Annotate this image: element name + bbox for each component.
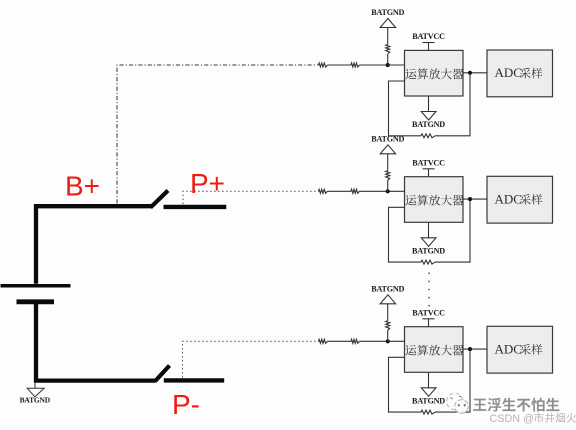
op-amp U2 box — [405, 177, 464, 223]
wire: ch3 bias resistor to ground symbol — [387, 304, 389, 321]
svg-text:CSDN @: CSDN @ — [490, 413, 535, 425]
wire: P+ sense tap (dotted) — [183, 191, 319, 204]
switch blade: positive contactor — [151, 191, 169, 208]
wire: ch2 BATVCC to op-amp — [428, 169, 430, 177]
wire: ch3 feedback bottom/right to output — [435, 351, 470, 412]
label: op-amp U1 text 运算放大器 — [406, 68, 464, 79]
svg-text:BATGND: BATGND — [20, 396, 51, 405]
wire: ch2 feedback bottom/right to output — [435, 201, 470, 262]
svg-text:ADC: ADC — [495, 191, 522, 206]
wire: ch1 input lead to series resistor — [317, 64, 320, 66]
svg-text:BATGND: BATGND — [371, 284, 404, 293]
switch contact: P+ side — [164, 205, 227, 209]
ground: ch2 BATGND symbol (down triangle) — [421, 238, 436, 247]
block: ch3 ADC sampling box — [487, 326, 553, 373]
wire: ch3 feedback left/bottom — [389, 357, 422, 412]
wire: ch2 input to op-amp — [360, 190, 405, 192]
svg-text:BATGND: BATGND — [412, 396, 445, 405]
node: ch1 input junction — [386, 63, 390, 67]
svg-text:BATGND: BATGND — [371, 134, 404, 143]
block: ch2 ADC sampling box — [487, 176, 553, 223]
resistor: ch2 input series R1 — [319, 189, 328, 193]
label: op-amp U3 text 运算放大器 — [406, 345, 464, 356]
wire: continuation (vertical dotted, more channels) — [428, 273, 430, 309]
wire: ch1 BATVCC to op-amp — [428, 43, 430, 51]
svg-text:ADC: ADC — [495, 65, 522, 80]
wire: ch3 input lead to series resistor — [317, 340, 320, 342]
wire: ch2 op-amp output to ADC — [463, 198, 487, 200]
resistor: ch2 bias R to BATGND — [386, 171, 390, 181]
label: op-amp U2 text 运算放大器 — [406, 195, 464, 206]
wire: ch1 feedback bottom/right to output — [435, 75, 470, 136]
switch contact: P- side — [164, 378, 224, 382]
wire: ch2 bias resistor to ground symbol — [387, 154, 389, 171]
node: ch3 input junction — [386, 339, 390, 343]
label: ch3 ADC text 采样 — [520, 344, 542, 355]
resistor: ch3 input series R1 — [319, 339, 328, 343]
wire: ch1 junction to bias resistor — [387, 54, 389, 65]
power: ch1 BATVCC bar — [423, 42, 435, 44]
power: ch2 BATVCC bar — [423, 168, 435, 170]
wire: battery negative to chassis ground — [34, 383, 36, 392]
wire: ch1 op-amp output to ADC — [463, 72, 487, 74]
wire: battery positive to switch (thick, B+ rail) — [36, 206, 152, 284]
wire: B+ sense tap (dash-dot) — [117, 65, 319, 204]
ground: ch3 BATGND symbol (down triangle) — [421, 388, 436, 397]
wire: ch2 input lead to series resistor — [317, 190, 320, 192]
node: ch2 output junction — [468, 197, 472, 201]
node: ch3 output junction — [468, 347, 472, 351]
wire: ch3 junction to bias resistor — [387, 330, 389, 341]
switch blade: negative contactor — [155, 366, 170, 382]
svg-text:ADC: ADC — [495, 341, 522, 356]
watermark icon (mascot circles) — [447, 393, 469, 413]
resistor: ch1 bias R to BATGND — [386, 45, 390, 55]
wire: ch3 between series resistors — [328, 340, 352, 342]
ground: ch1 BATGND symbol (down triangle) — [421, 112, 436, 121]
svg-text:P-: P- — [172, 389, 200, 420]
resistor: ch2 input series R2 — [351, 189, 360, 193]
resistor: ch1 input series R2 — [351, 63, 360, 67]
block: ch1 ADC sampling box — [487, 50, 553, 97]
battery positive plate (long) — [1, 284, 71, 288]
op-amp U3 box — [405, 327, 464, 373]
wire: ch3 op-amp output to ADC — [463, 348, 487, 350]
resistor: ch3 feedback R — [421, 410, 435, 414]
resistor: ch1 feedback R — [421, 134, 435, 138]
label: ch2 ADC text 采样 — [520, 194, 542, 205]
wire: ch2 feedback left/bottom — [389, 207, 422, 262]
wire: battery negative to bottom rail (thick) — [36, 302, 155, 381]
wire: P- sense tap (dotted) — [183, 341, 319, 377]
wire: ch1 op-amp to lower ground — [428, 96, 430, 112]
svg-text:BATGND: BATGND — [371, 8, 404, 17]
watermark text 王浮生不怕生 — [473, 398, 559, 412]
watermark text 市井烟火 — [534, 413, 576, 423]
wire: ch1 feedback left/bottom — [389, 81, 422, 136]
wire: ch2 between series resistors — [328, 190, 352, 192]
svg-text:BATVCC: BATVCC — [412, 32, 445, 41]
node: ch2 input junction — [386, 189, 390, 193]
wire: ch2 op-amp to lower ground — [428, 222, 430, 238]
ground: battery BATGND (down triangle) — [27, 388, 44, 397]
wire: ch1 input to op-amp — [360, 64, 405, 66]
ground: ch3 BATGND symbol (up triangle) — [380, 295, 395, 304]
wire: ch1 bias resistor to ground symbol — [387, 28, 389, 45]
resistor: ch3 input series R2 — [351, 339, 360, 343]
svg-text:BATVCC: BATVCC — [412, 158, 445, 167]
ground: ch2 BATGND symbol (up triangle) — [380, 145, 395, 154]
resistor: ch3 bias R to BATGND — [386, 321, 390, 331]
svg-text:BATVCC: BATVCC — [412, 308, 445, 317]
svg-text:BATGND: BATGND — [412, 120, 445, 129]
wire: ch3 op-amp to lower ground — [428, 372, 430, 388]
resistor: ch1 input series R1 — [319, 63, 328, 67]
ground: ch1 BATGND symbol (up triangle) — [380, 19, 395, 28]
battery negative plate (short) — [17, 299, 55, 304]
wire: ch2 junction to bias resistor — [387, 180, 389, 191]
wire: ch3 BATVCC to op-amp — [428, 319, 430, 327]
power: ch3 BATVCC bar — [423, 318, 435, 320]
wire: ch3 input to op-amp — [360, 340, 405, 342]
svg-text:B+: B+ — [65, 171, 100, 202]
svg-text:BATGND: BATGND — [412, 246, 445, 255]
label: ch1 ADC text 采样 — [520, 68, 542, 79]
op-amp U1 box — [405, 50, 464, 96]
node: ch1 output junction — [468, 71, 472, 75]
wire: ch1 between series resistors — [328, 64, 352, 66]
svg-text:P+: P+ — [190, 168, 225, 199]
resistor: ch2 feedback R — [421, 260, 435, 264]
